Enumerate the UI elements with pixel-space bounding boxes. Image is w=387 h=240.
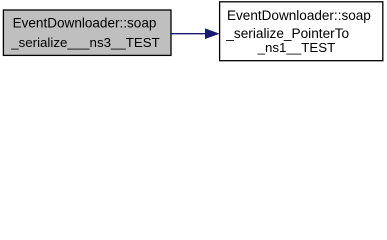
svg-text:EventDownloader::soap: EventDownloader::soap bbox=[227, 8, 371, 23]
svg-text:EventDownloader::soap: EventDownloader::soap bbox=[13, 16, 157, 31]
svg-text:_serialize_PointerTo: _serialize_PointerTo bbox=[225, 26, 349, 41]
node: EventDownloader::soap_serialize_PointerTo_ns1__TEST bbox=[220, 2, 383, 61]
edge arrow bbox=[171, 29, 219, 39]
node: EventDownloader::soap_serialize___ns3__TEST (current, gray) bbox=[3, 10, 171, 55]
svg-text:_serialize___ns3__TEST: _serialize___ns3__TEST bbox=[10, 35, 160, 50]
svg-text:_ns1__TEST: _ns1__TEST bbox=[257, 40, 336, 55]
